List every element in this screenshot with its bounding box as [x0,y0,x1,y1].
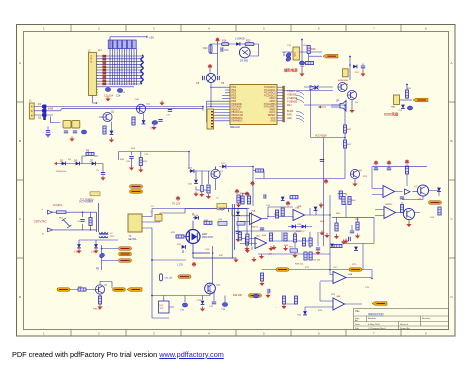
resistor R55 [238,232,241,240]
transistor Q1 [99,111,115,122]
transistor Q7 [417,185,428,201]
transistor Q11 [403,208,414,219]
svg-text:PD2: PD2 [232,93,237,95]
grounds row A [259,246,288,259]
svg-text:R58 222: R58 222 [295,264,304,266]
resistor R54 [309,238,312,246]
grounds analog mid [319,231,360,244]
svg-text:U6A: U6A [348,273,353,276]
svg-text:C:\Program Files\...: C:\Program Files\... [368,327,387,330]
svg-text:CON 15: CON 15 [90,55,92,64]
connector J4 fan [391,95,400,109]
input terminal L [42,209,53,214]
junction dot [301,39,303,41]
wire row down [82,156,103,172]
resistor R26 [207,185,210,193]
capacitor C10 on osc line [221,47,229,52]
ground below caps [105,97,110,102]
ground under optocoupler [69,137,74,142]
svg-text:PD0: PD0 [232,87,237,89]
capacitor C65 [350,231,354,233]
net pill I-SET [276,268,289,272]
wires opamp U6B [284,282,362,312]
svg-text:GND: GND [270,121,275,123]
svg-text:Revision: Revision [422,318,431,320]
svg-text:PD6/AIN0: PD6/AIN0 [232,103,243,106]
net arrow pointing left mid [318,106,326,109]
resistor R60 vertical [259,273,264,286]
svg-text:TO 12V: TO 12V [172,203,181,206]
ground red under C18 [360,72,365,77]
svg-text:4-May-2005: 4-May-2005 [368,324,380,326]
wire mid bus y231 [235,230,301,232]
capacitor C36 [180,303,188,311]
net arrow OUT [372,302,387,306]
capacitor C2 [45,131,50,137]
svg-text:Sheet of: Sheet of [400,323,409,326]
svg-text:PB4/MISO: PB4/MISO [232,121,243,123]
svg-text:PC1/ADC1: PC1/ADC1 [264,89,276,92]
svg-text:R40 10K: R40 10K [233,295,242,297]
net pill KEY [57,288,70,292]
wires right column [238,209,252,253]
svg-text:PB0/ICP: PB0/ICP [232,109,241,111]
power port above [192,262,197,267]
ground top right of Q12 [159,101,164,106]
opamp U5C [255,236,267,249]
wires relay [152,260,225,318]
net pill AL2 [119,252,132,256]
power port top [405,159,410,164]
svg-text:PB2/OC1B: PB2/OC1B [232,115,244,117]
wire upper analog [332,194,374,231]
resistor R65 [341,197,346,245]
power port under C32 [235,237,240,242]
wire bridge to bus [203,83,211,111]
capacitor C56 [315,248,320,255]
grounds aux bottom [193,192,211,200]
power port above bridge [208,64,213,74]
wires rectifier to labels [79,240,118,270]
diode ZD1 [142,113,146,124]
svg-text:C10: C10 [224,49,229,52]
diode D22 vertical [197,300,205,312]
vertical resistor R50 [236,195,241,208]
diode D33 [354,247,358,251]
title block texts [355,310,431,330]
power port above R13 [215,37,220,42]
resistor R59 [304,252,307,260]
wire IC top to buzzer [284,91,334,138]
connector J3 [207,109,214,129]
gate resistor R31 [176,235,186,238]
diode D2 [42,108,54,113]
resistor R63 [246,234,249,242]
svg-text:PD4: PD4 [232,98,237,100]
opamp U6A [333,272,353,284]
wire bus y269 [262,269,372,271]
net arrow label right [127,288,142,292]
resistor R8 above row [86,150,94,156]
power ports under diodes [76,249,98,254]
power port above R27 [250,181,255,186]
diode D9 [235,38,245,46]
svg-text:ADC4: ADC4 [269,97,276,100]
resistor R30 horizontal [204,220,212,224]
snubber box C30 [218,219,227,225]
wire speaker [331,105,340,107]
resistor R48 vertical [281,208,284,216]
wires opamp U6A [320,270,372,282]
transistor Q12 top-left aux [136,104,151,114]
svg-text:Number: Number [368,317,376,320]
svg-text:R15: R15 [246,40,251,43]
svg-text:R14: R14 [222,40,227,43]
svg-text:Drawn By:: Drawn By: [400,327,410,330]
transistor Q5 [347,90,356,108]
svg-text:DF 08S: DF 08S [240,60,249,63]
diode D5 [60,160,65,166]
svg-text:B: B [19,139,21,143]
regulator U2 7805 [293,47,299,60]
electrolytic C59 [253,294,258,298]
resistor R61 [309,252,312,260]
svg-text:FAN: FAN [391,106,396,109]
resistor R42 [343,140,351,148]
wire curves from labels [296,91,304,122]
resistor R25 [139,158,148,166]
diode D12 [401,105,413,110]
diode D7 [90,160,95,166]
svg-text:VOLT-500V: VOLT-500V [315,135,327,137]
resistor R28 [247,196,250,204]
optocoupler U3 [63,120,80,128]
capacitor C37 [209,302,216,308]
net labels right of IC [287,90,298,120]
net pill AL3 [119,259,132,263]
svg-text:PD3: PD3 [232,95,237,97]
input terminal N [42,228,53,236]
resistor R16 [307,46,316,54]
capacitor C52 [260,228,264,230]
wires row B [240,232,330,254]
svg-text:RLY: RLY [160,305,164,307]
diode D15 [74,244,81,253]
capacitor C66 [349,237,351,241]
right pin bar [283,86,285,122]
resistor R20 [405,90,408,98]
svg-text:XTAL1/PB6: XTAL1/PB6 [264,103,277,106]
svg-text:MD8002A: MD8002A [338,79,348,82]
wires comparator cluster [372,167,439,205]
diode D6 [74,160,79,166]
transformer primary riser [97,203,99,232]
crystal X2 [315,86,319,90]
current transformer CT1 [217,204,225,210]
svg-text:220V AC: 220V AC [34,220,47,224]
resistor R22 [89,218,92,226]
resistor R14 horizontal [222,40,229,46]
grounds under C20 R25 [129,166,144,173]
capacitor C64 [400,197,404,199]
power port [245,191,250,196]
svg-text:INDUCTION: INDUCTION [368,312,384,316]
net label box TO18V [217,204,227,209]
svg-text:VCC: VCC [271,118,276,120]
ground under Q11 [406,220,411,227]
diode D3 [38,113,46,120]
capacitor C18 [361,64,365,73]
border zone ticks bottom [71,330,401,337]
red caption top [53,204,63,207]
resistor R57 horizontal [334,244,342,247]
svg-text:PD7/AIN1: PD7/AIN1 [232,106,243,109]
net pill AL4 [130,185,143,189]
capacitor C45 [320,160,324,162]
AC wires [53,212,97,230]
wire connector bottom to bus [93,96,97,104]
IC U1 ATMEGA8 [230,85,277,129]
power port small [286,201,291,206]
long sense rail [323,138,325,247]
ground under Q1 [109,138,114,143]
wire drop from diode row [48,117,60,130]
resistor R35 on wire [78,287,86,292]
resistor R51 vertical [275,210,278,218]
phototransistor Q3 circle [239,47,250,62]
net label TO70 [80,192,100,202]
diode D16 [91,244,98,253]
junction dots on bundle [109,58,134,85]
net pill FAN2 [249,294,262,298]
svg-text:25N120TD: 25N120TD [202,237,213,239]
svg-text:A: A [451,61,453,65]
red label near pill [233,295,242,297]
diode D30 [297,311,307,316]
common mode choke L2 [99,233,109,238]
right rail diode D19 [229,209,248,216]
svg-text:R36 1K: R36 1K [93,309,101,311]
svg-text:VIN: VIN [303,45,307,47]
resistor R52 vertical [269,233,272,241]
diode D11 [353,65,357,69]
svg-text:Title: Title [355,310,360,313]
junction dot top [349,56,351,58]
capacitor C31 [177,244,185,249]
red labels row B [268,245,321,266]
capacitor C13 below connector [104,88,114,98]
transistor Q9 [95,285,107,295]
svg-text:MEGA8: MEGA8 [230,125,240,129]
svg-text:A: A [19,61,21,65]
inductor coil column L1 [141,55,143,84]
red caption fan [384,112,398,117]
capacitor C21 [201,186,204,192]
svg-text:AREF: AREF [269,108,276,111]
pulse transformer T2 [150,212,162,221]
resistor R52b vertical [284,233,287,241]
inner border frame [24,32,449,330]
svg-text:R16: R16 [311,48,316,51]
red label VOLT [315,135,327,137]
wires row A [232,195,330,270]
electrolytic CE1 tilted [99,252,105,258]
capacitor C58 [265,289,270,298]
capacitor C4 cluster right of Q1 [132,117,157,130]
svg-text:XTAL2/PB7: XTAL2/PB7 [264,106,277,109]
wire from IC area down [253,105,345,179]
diode D17 [221,163,226,168]
diode D13 vertical [188,180,198,186]
diode D32 [330,244,334,248]
resistor R69 [400,205,403,213]
wire lower analog link [344,217,374,269]
svg-text:Date:: Date: [355,323,361,326]
capacitor C14 [116,89,123,98]
electrolytic C15 tilted [285,52,291,58]
svg-text:AVCC: AVCC [269,111,276,114]
svg-text:X2X2风扇: X2X2风扇 [384,112,398,117]
wire bundle verticals from RP to grid [110,37,136,85]
svg-text:R13: R13 [203,47,208,50]
resistor R29 horizontal [256,169,264,172]
resistor R13 vertical [203,45,212,54]
resistor column R pack on bundle [103,55,106,85]
grounds row B [245,245,298,262]
extra red value labels [56,45,435,312]
net pill LED2 [113,288,126,292]
blue label bottom [96,268,100,271]
wires IGBT emitter [183,244,236,259]
svg-text:IGBT: IGBT [202,234,208,236]
resistor R58 [302,238,305,246]
trimmer RT1 [289,247,298,253]
border zone ticks left right [17,102,456,258]
wire main aux rail [119,152,190,170]
power port near R27 [235,189,240,194]
capacitor C50 [264,194,266,198]
svg-text:KEY: KEY [287,104,292,107]
net arrow FAN [400,98,429,102]
svg-text:U5C: U5C [256,236,261,238]
svg-text:C55 103: C55 103 [312,260,321,262]
capacitor C63 [438,207,441,215]
cap C6 [100,173,105,181]
svg-text:1 12V: 1 12V [177,265,183,267]
svg-text:AC POWER: AC POWER [79,200,93,204]
diode under Q1 [110,122,114,135]
resistor R15 horizontal [245,40,254,46]
wires U7B [375,210,420,216]
resistor R49 horizontal top [290,196,298,199]
diode D24 vertical top [281,197,285,201]
speaker LS1 [336,100,346,112]
resistor R66 [348,197,356,205]
emitter resistor R36 [93,294,103,310]
electrolytic C38 [221,303,228,311]
net pill AL5 [130,190,143,194]
red caption under regulator [284,68,298,73]
svg-text:C14: C14 [116,95,121,98]
resistor R68 [335,223,338,231]
label choke [110,233,115,238]
label AC POWER blue [79,200,93,204]
wire VCC at top of resistor network [110,36,154,40]
IC right pin wires [277,87,284,121]
transistor Q4 [338,82,347,91]
net arrow label +5V [309,54,338,58]
vertical output rails [232,204,234,258]
svg-text:PC3/ADC3: PC3/ADC3 [264,94,276,97]
buffer arrow [310,86,316,91]
ground under regulator [299,72,304,77]
svg-text:PB1/OC1A: PB1/OC1A [232,111,244,114]
bridge rectifier B1 [206,73,215,82]
svg-text:PC2/ADC2: PC2/ADC2 [264,92,276,95]
svg-text:C13 104: C13 104 [104,95,114,98]
diode D31 [437,188,441,192]
snubber box R32 [237,222,245,226]
resistor R33 [244,237,249,251]
svg-text:D26 D27: D26 D27 [296,231,305,233]
net pill TEMP [429,201,442,205]
svg-text:IN40: IN40 [48,108,54,111]
opamp U5A body [250,210,262,229]
ground right of D25 [318,203,323,208]
svg-text:LM324: LM324 [251,227,258,229]
svg-text:辅助电源: 辅助电源 [284,68,298,73]
connector J2 ISP header [88,50,98,96]
ground under Q5 [349,108,354,113]
svg-text:PC0/ADC0: PC0/ADC0 [264,86,276,89]
label 220V AC [34,220,47,224]
svg-text:NTC: NTC [110,236,115,238]
transistor Q10 [205,283,221,294]
connector J1 [29,100,34,120]
wire top rail to right [185,209,229,230]
wires from J1 [34,107,203,116]
opamp U5B body [293,208,305,221]
wires around regulator [282,40,322,72]
svg-text:10K: 10K [135,99,139,101]
svg-text:File:: File: [355,328,360,330]
wires aux mid [194,167,253,207]
transistor Q6 [350,169,362,178]
resistor R62 [405,166,408,174]
power symbol aux [172,196,181,206]
IGBT Q8 big [186,230,213,244]
caps under optocoupler [64,130,87,134]
collector wire up [100,282,112,289]
svg-text:LED: LED [287,117,292,120]
svg-text:7805: 7805 [293,52,295,58]
resistor R67 [356,222,359,230]
junction dot [406,84,408,99]
capacitor C22 [150,120,163,130]
vertical resistors under bus [281,296,297,309]
opamp U7B [384,207,396,219]
svg-text:EE-55A: EE-55A [129,238,137,241]
wires transformer secondary [142,209,186,261]
relay K1 box [159,301,170,313]
resistor R34 vertical capsule [160,274,173,281]
caps beside bridge [196,76,225,85]
resistor R76 [339,191,342,199]
opamp U7A [383,186,395,198]
svg-text:+5V: +5V [149,36,154,40]
diode pair D26 D27 [288,224,312,228]
resistor R41 [343,125,351,133]
